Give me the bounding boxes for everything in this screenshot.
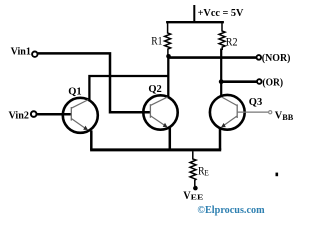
terminal NOR <box>257 55 262 60</box>
wire emitter rail <box>90 148 221 151</box>
terminal Vin1 <box>32 52 37 57</box>
svg-text:V: V <box>275 109 283 121</box>
wire Vin2 to Q1 base <box>37 113 72 116</box>
wire NOR output line <box>168 56 256 59</box>
svg-text:Vin2: Vin2 <box>9 111 29 122</box>
svg-text:Q3: Q3 <box>249 97 262 108</box>
wire Q3 emitter down <box>219 129 222 150</box>
resistor RE <box>190 151 196 186</box>
terminal Vin2 <box>31 111 37 117</box>
wire Q1 emitter down <box>90 130 93 150</box>
svg-text:EE: EE <box>191 193 204 202</box>
wire Q2 emitter down <box>169 128 172 150</box>
resistor R2 <box>219 22 225 51</box>
svg-text:Vin1: Vin1 <box>11 47 31 58</box>
wire R2 to Q3 collector <box>220 49 222 98</box>
terminal VEE dot <box>193 186 198 191</box>
svg-text:(OR): (OR) <box>262 77 283 88</box>
wire Q2 collector to R1 node <box>167 56 169 97</box>
wire OR output line <box>221 80 257 83</box>
wire Q1 collector to R1 node <box>89 76 168 100</box>
svg-text:R2: R2 <box>226 34 238 48</box>
svg-text:Q1: Q1 <box>68 87 81 98</box>
wire Vcc stem <box>193 5 195 22</box>
wire Q3 base to VBB <box>237 111 268 113</box>
svg-text:+Vcc = 5V: +Vcc = 5V <box>198 8 244 19</box>
transistor Q2 <box>143 95 177 129</box>
node R2/OR junction <box>219 79 224 84</box>
svg-text:BB: BB <box>282 112 293 122</box>
node R1/NOR junction <box>166 54 171 59</box>
terminal VBB <box>269 111 272 114</box>
wire Vcc top rail <box>166 21 224 23</box>
transistor Q1 <box>63 98 98 133</box>
svg-text:R1: R1 <box>151 34 162 48</box>
svg-text:©Elprocus.com: ©Elprocus.com <box>197 204 264 216</box>
wire Vin1 to Q2 base <box>38 53 151 112</box>
transistor Q3 <box>210 95 245 130</box>
terminal OR <box>257 79 262 84</box>
svg-text:Q2: Q2 <box>148 84 161 95</box>
stray dot artifact <box>276 173 279 177</box>
svg-text:(NOR): (NOR) <box>262 53 291 64</box>
svg-text:E: E <box>204 167 209 177</box>
resistor R1 <box>165 22 171 57</box>
